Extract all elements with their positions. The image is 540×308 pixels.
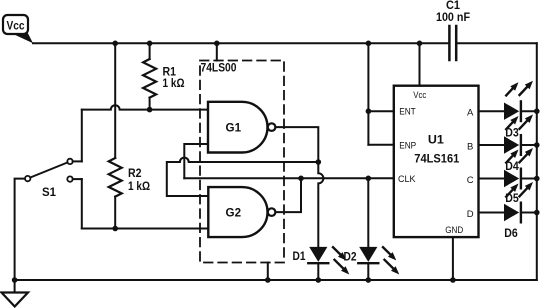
junction G2 output node on CLK net <box>298 176 304 182</box>
junction top rail / U1 Vcc <box>417 41 423 47</box>
junction bottom rail / D1 <box>316 277 322 283</box>
switch pole contact <box>25 176 30 181</box>
junction right rail / D4 <box>534 142 540 148</box>
wire feedback (G1 out to G2 top input, hops over G1 lower input wire) <box>167 158 318 196</box>
nand gate G2 <box>208 187 275 237</box>
wire G1 top input line (hops over R2 branch) <box>82 105 208 109</box>
wire ENT-ENP tie to Vcc rail <box>367 43 369 145</box>
junction right rail / D3 <box>534 108 540 114</box>
junction bottom rail / 74LS00 GND <box>265 277 271 283</box>
wire ENT pin <box>368 110 393 112</box>
LED D3 <box>504 81 537 140</box>
svg-text:Vcc: Vcc <box>7 20 26 32</box>
wire 74LS00 GND stub <box>267 263 269 281</box>
wire U1 GND pin <box>452 237 454 280</box>
switch upper throw contact <box>67 159 72 164</box>
svg-text:1 kΩ: 1 kΩ <box>163 76 185 90</box>
svg-text:ENT: ENT <box>399 107 416 118</box>
power flag Vcc <box>3 15 33 43</box>
junction right rail / D6 <box>534 210 540 216</box>
wire D1 branch (hops over CLK net) <box>318 162 323 247</box>
svg-text:C: C <box>467 175 474 186</box>
junction top rail / switch branch <box>112 41 118 47</box>
svg-text:GND: GND <box>445 225 463 236</box>
junction top rail / R1 <box>147 41 153 47</box>
ground <box>2 280 29 307</box>
junction top rail / 74LS00 Vcc <box>214 41 220 47</box>
svg-text:CLK: CLK <box>398 174 416 185</box>
wire bottom ground rail <box>15 279 537 281</box>
D2 emission arrows <box>383 247 399 274</box>
wire switch pole to left rail <box>15 179 25 280</box>
nand gate G1 <box>208 102 275 153</box>
svg-text:Vcc: Vcc <box>413 90 426 101</box>
wire G1 lower input from CLK net <box>184 144 208 178</box>
LED D2 <box>344 247 400 280</box>
G1 output bubble <box>268 123 276 131</box>
svg-text:G2: G2 <box>226 206 242 220</box>
junction R2 bottom / G2 input wire <box>112 226 118 232</box>
junction ENT tap <box>366 108 372 114</box>
svg-text:74LS00: 74LS00 <box>201 60 237 74</box>
svg-text:D: D <box>467 209 474 220</box>
LED D6 <box>504 182 537 240</box>
wire top Vcc rail (left of C1) <box>33 42 449 44</box>
switch lever <box>30 163 67 178</box>
wire upper contact stub <box>73 160 82 162</box>
wire U1 Vcc pin <box>419 43 421 85</box>
IC 74LS00 dashed package outline <box>200 60 284 262</box>
wire switch lower contact down to G2 input line <box>81 179 83 228</box>
D4 emission arrows <box>506 115 533 130</box>
junction R1 bottom / G1 input wire <box>147 107 153 113</box>
wire switch upper contact to G1 input line <box>81 110 83 162</box>
wire D2 branch <box>367 178 369 247</box>
svg-text:74LS161: 74LS161 <box>414 151 459 165</box>
LED D4 <box>504 115 537 174</box>
junction bottom rail / switch branch <box>12 277 18 283</box>
junction right rail / D5 <box>534 176 540 182</box>
wire U1 output C <box>479 178 505 180</box>
svg-text:1 kΩ: 1 kΩ <box>128 179 150 193</box>
wire 74LS00 Vcc stub <box>216 43 218 60</box>
svg-text:A: A <box>467 108 474 119</box>
switch S1 <box>15 159 82 280</box>
wire G1 output to feedback node <box>275 127 318 162</box>
svg-text:G1: G1 <box>226 121 242 135</box>
IC U1 74LS161 <box>394 86 479 237</box>
resistor R1 <box>143 43 184 109</box>
wire G2 bottom input line <box>82 228 209 230</box>
svg-text:B: B <box>467 142 473 153</box>
svg-text:D5: D5 <box>505 191 519 205</box>
wire U1 output D <box>479 212 505 214</box>
D6 emission arrows <box>506 182 533 197</box>
svg-text:100 nF: 100 nF <box>436 10 470 24</box>
D3 emission arrows <box>506 81 533 96</box>
wire lower contact stub <box>73 178 82 180</box>
junction bottom rail / D2 <box>366 277 372 283</box>
svg-text:ENP: ENP <box>399 140 416 151</box>
svg-text:S1: S1 <box>42 185 56 199</box>
wire U1 output A <box>479 110 505 112</box>
wire right rail <box>536 43 538 280</box>
svg-text:U1: U1 <box>428 132 444 146</box>
wire G2 output up to CLK net <box>275 178 301 212</box>
D1 emission arrows <box>333 247 349 274</box>
junction G1 output node <box>316 159 322 165</box>
junction CLK net / D2 branch <box>366 176 372 182</box>
wire ENP pin <box>368 144 393 146</box>
LED D1 <box>293 247 350 280</box>
switch lower throw contact <box>67 176 72 181</box>
G2 output bubble <box>268 208 276 216</box>
D5 emission arrows <box>506 148 533 163</box>
junction top rail / ENT-ENP branch <box>366 41 372 47</box>
svg-text:D6: D6 <box>504 226 518 240</box>
capacitor C1 <box>436 0 470 60</box>
wire CLK net (G2 output node to U1 CLK) <box>184 177 393 179</box>
LED D5 <box>504 148 537 205</box>
svg-text:D2: D2 <box>344 249 357 263</box>
wire top Vcc rail (right of C1) <box>456 42 537 44</box>
wire U1 output B <box>479 144 505 146</box>
svg-text:R2: R2 <box>128 166 142 180</box>
junction bottom rail / U1 GND <box>450 277 456 283</box>
svg-text:D1: D1 <box>293 249 306 263</box>
resistor R2 <box>109 43 150 228</box>
